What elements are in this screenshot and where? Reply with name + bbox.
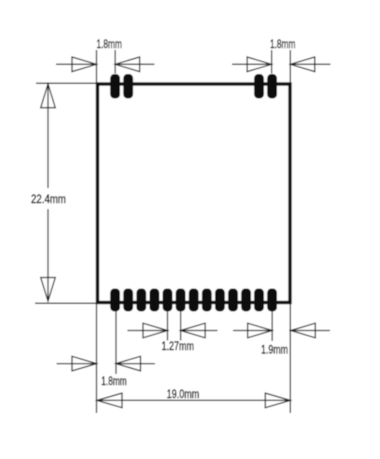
bottom pin 13	[267, 289, 277, 312]
arrow right top-right 1.8mm	[232, 63, 272, 65]
extension line bottom pin5 center	[167, 312, 169, 341]
bottom pin 3	[136, 289, 146, 312]
extension line top-right module edge	[289, 50, 291, 83]
svg-text:1.9mm: 1.9mm	[261, 345, 288, 357]
bottom pin 6	[176, 289, 186, 312]
bottom pin 1	[110, 289, 120, 312]
arrow left bottom 1.8mm	[116, 363, 155, 365]
svg-text:1.8mm: 1.8mm	[270, 39, 295, 51]
extension line bottom-right module edge	[289, 304, 291, 413]
svg-text:1.8mm: 1.8mm	[97, 39, 122, 51]
arrow left 19.0mm	[97, 393, 122, 408]
svg-text:22.4mm: 22.4mm	[31, 194, 66, 206]
arrow left top-right 1.8mm	[290, 63, 330, 65]
svg-text:1.27mm: 1.27mm	[162, 341, 195, 353]
arrow left 1.9mm	[291, 330, 330, 332]
bottom pin 10	[228, 289, 238, 312]
module body outline 19.0mm x 22.4mm	[98, 84, 291, 303]
bottom pin 11	[241, 289, 251, 312]
bottom pin 4	[150, 289, 160, 312]
extension line top pin13 center	[271, 50, 273, 74]
extension line bottom pin13 center	[271, 312, 273, 342]
extension line left of top edge	[36, 82, 97, 84]
bottom pin 5	[163, 289, 173, 312]
svg-text:1.8mm: 1.8mm	[101, 376, 126, 388]
bottom pin 2	[123, 289, 133, 312]
dimension 22.4mm line upper segment	[47, 84, 49, 188]
arrow left top-left 1.8mm	[115, 63, 154, 65]
extension line top pin1 center	[114, 50, 116, 74]
extension line bottom-left module edge	[96, 304, 98, 413]
dimension 19.0mm line	[97, 399, 290, 401]
extension line left of bottom edge	[35, 302, 97, 304]
arrow left 1.27mm	[181, 330, 218, 332]
svg-text:19.0mm: 19.0mm	[167, 389, 199, 401]
extension line top-left module edge	[96, 50, 98, 83]
top pin 2	[123, 74, 133, 99]
bottom pin 12	[254, 289, 264, 312]
arrow down 22.4mm	[41, 278, 56, 302]
arrow up 22.4mm	[41, 84, 56, 108]
top pin 12	[254, 74, 264, 99]
dimension 22.4mm line lower segment	[47, 209, 49, 301]
top pin 1	[110, 74, 120, 99]
arrow right top-left 1.8mm	[56, 63, 97, 65]
arrow right 1.9mm	[233, 330, 272, 332]
bottom pin 9	[215, 289, 225, 312]
arrow right 19.0mm	[265, 393, 290, 408]
arrow right bottom 1.8mm	[57, 363, 97, 365]
extension line bottom pin1 center	[115, 312, 117, 375]
top pin 13	[267, 74, 277, 99]
bottom pin 7	[189, 289, 199, 312]
bottom pin 8	[202, 289, 212, 312]
arrow right 1.27mm	[127, 330, 167, 332]
extension line bottom pin6 center	[180, 312, 182, 341]
